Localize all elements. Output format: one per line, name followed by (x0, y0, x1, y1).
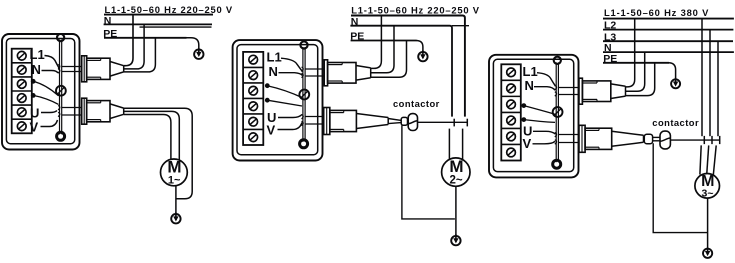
svg-text:2~: 2~ (450, 174, 463, 186)
D1 earth terminal at supply (194, 48, 203, 59)
D1 wire drop PE to gland (124, 38, 156, 72)
D3 switch adjustment screw (553, 107, 563, 117)
D2 junction dot 1 (265, 83, 270, 88)
D1 wire drop L1 to gland (124, 15, 133, 66)
D1 motor M 1~ (161, 157, 188, 186)
D2 wire N to switch (279, 73, 303, 76)
D3 enclosure box outer wall (489, 55, 579, 178)
D2 contact K1.1 tick (453, 119, 455, 127)
D3 wire drop L1 to contact (701, 19, 703, 137)
D3 wire drop L2 to contact (709, 30, 711, 137)
svg-text:contactor: contactor (393, 98, 440, 109)
D3 wire contact to motor b (707, 145, 709, 174)
svg-text:M: M (449, 157, 463, 176)
D3 contactor coil K1 (660, 131, 670, 149)
D1 enclosure box inner wall (6, 39, 74, 144)
svg-text:N: N (525, 78, 534, 93)
D2 switch adjustment screw (299, 90, 309, 100)
D1 switch contact hooks 1 (58, 65, 60, 74)
D2 bus N overshoot (452, 25, 469, 27)
D2 cable gland to contactor coil (324, 108, 389, 135)
D2 wire drop PE to gland (371, 41, 407, 78)
D2 wire gland to contactor coil a (388, 119, 401, 121)
D1 wire switch to gland 1a (62, 66, 82, 68)
D3 wire input to coil b (653, 140, 660, 142)
D1 enclosure box outer wall (2, 34, 80, 150)
D3 bus PE (603, 62, 669, 64)
D3 switch contact hooks 2 (555, 133, 557, 145)
D1 wire V to switch (41, 120, 58, 127)
D2 switch bar bottom pivot (300, 140, 308, 148)
D2 earth terminal at supply (418, 50, 427, 61)
svg-text:contactor: contactor (652, 117, 699, 128)
svg-text:L1-1-50–60 Hz 220–250 V: L1-1-50–60 Hz 220–250 V (351, 5, 479, 16)
D3 motor M 3~ (695, 173, 720, 200)
D3 switch contact hooks 1 (555, 86, 557, 97)
D2 wire drop L1 to gland (371, 16, 382, 69)
D3 switch bar bottom pivot (553, 160, 561, 168)
svg-text:N: N (32, 62, 41, 77)
D2 cable gland to supply (324, 60, 371, 86)
D2 bus PE (351, 40, 417, 42)
D1 cable gland to motor (82, 98, 124, 124)
D2 wire gland to contactor coil b (388, 123, 401, 124)
D1 wire PE bypass to below motor (124, 108, 193, 199)
D1 terminal block (12, 49, 32, 134)
D1 switch adjustment screw (56, 86, 66, 96)
D2 contactor coil K1 (408, 114, 417, 131)
svg-text:U: U (30, 105, 39, 120)
D2 wire U to switch (278, 115, 302, 118)
D2 wire switch to gland 2a (305, 116, 324, 118)
D3 bus L2 (603, 29, 733, 31)
svg-text:L1: L1 (523, 64, 538, 79)
D3 switch bar (556, 62, 558, 162)
D2 wire switch to gland 2b (305, 123, 324, 125)
D2 wire coil to contacts (418, 121, 468, 123)
D1 junction dot 2 (31, 93, 36, 98)
D1 wire N to switch (42, 71, 59, 74)
D1 terminal screws 1-6 (17, 51, 26, 130)
D3 wire contact to motor c (713, 145, 716, 175)
D1 wire drop N to gland (124, 24, 144, 69)
D2 enclosure box inner wall (237, 45, 318, 155)
svg-text:3~: 3~ (702, 187, 714, 199)
D3 enclosure box inner wall (493, 59, 573, 171)
D3 wire drop PE to gland (626, 63, 655, 96)
D1 wire from junction 2 to switch bar (33, 95, 58, 104)
D1 wire switch to gland 1b (62, 71, 82, 73)
D1 wire switch to gland 2a (62, 107, 82, 109)
D2 wire switch to gland 1b (305, 75, 324, 77)
D2 wire drop N to gland (371, 26, 394, 73)
D3 bus N (603, 51, 734, 53)
D2 terminal screws 1-6 (249, 55, 258, 141)
D3 earth terminal below motor (703, 247, 712, 258)
D3 wire contact to motor a (700, 145, 701, 174)
D3 wire switch to gland 1b (558, 94, 579, 96)
D2 wire motor to earth (455, 186, 457, 235)
D3 wire V to switch (533, 141, 556, 144)
D2 bus L1 with drop to contact (351, 16, 465, 117)
D1 earth terminal below motor (171, 213, 180, 224)
D1 bus PE (104, 37, 187, 39)
D1 wire L to motor (124, 115, 171, 162)
D2 contact K1.2 tick (466, 119, 468, 127)
D2 wire coil return (402, 125, 455, 219)
D2 enclosure box outer wall (233, 40, 323, 160)
svg-text:1~: 1~ (168, 174, 181, 186)
D1 wire U to switch (41, 111, 57, 113)
svg-text:V: V (523, 136, 532, 151)
D3 wire switch to gland 1a (558, 87, 579, 89)
D2 contactor input terminal (401, 117, 407, 125)
D3 contact K1.1 tick (703, 136, 705, 144)
D3 cable gland to supply (579, 78, 626, 104)
D2 wire PE to earth screw (416, 41, 423, 52)
D3 bus L1 (603, 18, 734, 20)
D1 bus N (104, 23, 212, 25)
D2 wire contact to motor b (462, 129, 464, 161)
D2 wire from junction 2 to switch bar (267, 100, 302, 106)
D1 wire switch to gland 2b (62, 114, 82, 116)
D3 wire drop L3 to contact (717, 41, 719, 136)
D1 wire motor to earth (175, 186, 177, 214)
D3 wire switch to gland 2a (558, 134, 579, 136)
D2 switch bar (303, 47, 305, 142)
D1 switch bar bottom pivot (57, 132, 65, 140)
D3 wire PE to earth screw (669, 63, 676, 79)
D3 earth terminal at supply (671, 78, 680, 89)
D1 bus N lower stroke (140, 26, 212, 28)
D3 wire coil to contacts (670, 139, 720, 141)
svg-text:L1-1-50–60 Hz 380 V: L1-1-50–60 Hz 380 V (604, 7, 709, 18)
D3 terminal block (501, 64, 521, 160)
D1 wire N to motor (124, 111, 180, 161)
D2 terminal block (243, 52, 263, 145)
D3 junction dot 1 (521, 103, 526, 108)
D2 wire contact to motor a (448, 129, 450, 160)
D1 bus L1 (104, 14, 213, 16)
D3 wire switch to gland 2b (558, 142, 579, 144)
D2 earth terminal below motor (451, 234, 460, 245)
D2 switch contact hooks 2 (302, 115, 304, 126)
svg-text:L1: L1 (267, 50, 282, 65)
D1 cable gland to supply (82, 56, 124, 82)
D3 wire U to switch (533, 131, 556, 134)
D2 wire L1 to switch (281, 58, 303, 71)
D3 wire L1 to switch (537, 73, 556, 87)
D3 wire coil return (653, 143, 707, 232)
D3 junction dot 2 (521, 117, 526, 122)
D3 wire drop L1 to gland (626, 19, 635, 87)
svg-text:V: V (30, 119, 39, 134)
D3 switch bar top screw (554, 57, 561, 64)
D2 wire V to switch (278, 123, 303, 130)
D1 junction dot 1 (31, 79, 36, 84)
D2 switch bar top screw (300, 41, 307, 48)
D3 wire drop N to gland (626, 52, 645, 91)
D2 wire switch to gland 1a (305, 68, 324, 70)
D3 contact K1.3 tick (719, 136, 721, 144)
D2 switch contact hooks 1 (302, 67, 304, 78)
D1 wire L1 to switch (45, 56, 60, 69)
D3 contactor input terminal (644, 134, 652, 144)
D3 cable gland to contactor coil (579, 125, 644, 152)
D2 junction dot 2 (265, 98, 270, 103)
D2 motor M 2~ (442, 157, 470, 186)
D3 wire from junction 2 to switch bar (524, 120, 555, 123)
svg-text:N: N (269, 64, 278, 79)
D1 switch contact hooks 2 (58, 106, 60, 117)
D2 wire from junction 1 to switch bar (267, 86, 302, 98)
D3 wire from junction 1 to switch bar (524, 106, 555, 115)
D3 wire motor to earth (707, 198, 709, 248)
D3 contact K1.2 tick (711, 136, 713, 144)
svg-text:L1-1-50–60 Hz 220–250 V: L1-1-50–60 Hz 220–250 V (105, 4, 233, 15)
D3 bus L3 (603, 40, 733, 42)
D1 switch bar (60, 40, 62, 135)
svg-text:V: V (267, 122, 276, 137)
D2 bus N with drop to contact (350, 26, 452, 117)
D3 terminal screws 1-6 (507, 68, 516, 157)
D3 wire N to switch (534, 87, 555, 91)
D1 wire PE to earth screw (186, 38, 199, 50)
D3 wire input to coil a (653, 136, 660, 138)
svg-text:L1: L1 (30, 47, 45, 62)
D1 wire from junction 1 to switch bar (33, 81, 58, 96)
D1 switch bar top screw (57, 34, 64, 41)
